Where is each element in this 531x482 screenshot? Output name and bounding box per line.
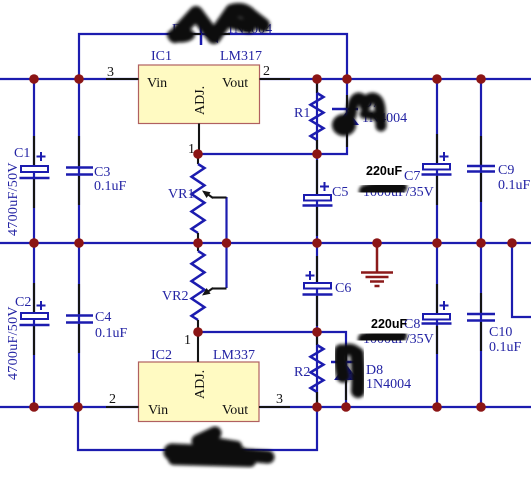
junction mid rail C3 [74, 238, 84, 248]
svg-text:R1: R1 [294, 106, 310, 121]
wire C10 branch [480, 243, 482, 407]
capacitor C7 [363, 134, 452, 205]
svg-text:1N4004: 1N4004 [366, 377, 411, 392]
capacitor C4 0.1uF [66, 284, 128, 353]
svg-text:IC1: IC1 [151, 49, 172, 64]
junction top rail D7 [342, 74, 352, 84]
junction R2 top [312, 327, 322, 337]
junction top rail C7 [432, 74, 442, 84]
svg-text:220uF: 220uF [371, 317, 407, 331]
svg-text:Vin: Vin [147, 76, 167, 91]
svg-text:R2: R2 [294, 365, 310, 380]
annotation 220uF at C7 [366, 164, 402, 178]
wire R1 branch [316, 79, 318, 154]
marker scribble over D5 label [167, 10, 263, 42]
annotation 220uF at C8 [371, 317, 407, 331]
capacitor C9 0.1uF [467, 136, 531, 202]
junction bottom rail D8 [341, 402, 351, 412]
op-amp regulator IC2 LM337 [106, 332, 290, 422]
svg-text:220uF: 220uF [366, 164, 402, 178]
potentiometer VR1 [168, 156, 227, 241]
wire C8 branch [436, 243, 438, 407]
pin number 2 IC2 [109, 392, 116, 407]
junction top rail C9 [476, 74, 486, 84]
capacitor C3 0.1uF [66, 136, 127, 205]
wire bottom bypass loop [78, 407, 317, 450]
wire C1 branch upper [33, 79, 35, 243]
svg-text:4700uF/50V: 4700uF/50V [6, 306, 21, 380]
wire C7 branch [436, 79, 438, 243]
svg-text:3: 3 [107, 65, 114, 80]
wire output stub right [512, 243, 531, 317]
wire top bypass loop [79, 34, 347, 79]
wire middle ground rail [0, 242, 531, 244]
pin number 2 IC1 [263, 64, 270, 79]
svg-text:C3: C3 [94, 165, 110, 180]
svg-text:IC2: IC2 [151, 348, 172, 363]
pin number 3 IC1 [107, 65, 114, 80]
svg-text:0.1uF: 0.1uF [498, 178, 531, 193]
svg-text:C5: C5 [332, 185, 348, 200]
svg-text:ADJ.: ADJ. [193, 370, 208, 399]
svg-text:VR1: VR1 [168, 187, 194, 202]
resistor R2 [294, 334, 324, 405]
capacitor C1 4700uF/50V [6, 136, 50, 236]
svg-text:LM337: LM337 [213, 348, 255, 363]
pin number 1 IC2 ADJ [184, 333, 191, 348]
marker scribble over D8 [341, 350, 359, 392]
capacitor C6 [303, 256, 352, 326]
ground [361, 245, 393, 286]
diode D7 1N4004 [332, 95, 407, 147]
svg-text:0.1uF: 0.1uF [95, 326, 128, 341]
svg-text:C6: C6 [335, 281, 351, 296]
junction top rail C3 [74, 74, 84, 84]
diode D5 1N4004 on top bypass [172, 22, 272, 45]
junction top rail R1 [312, 74, 322, 84]
junction bottom rail R2 [312, 402, 322, 412]
svg-text:D8: D8 [366, 363, 383, 378]
diode D8 1N4004 [331, 348, 411, 400]
svg-text:0.1uF: 0.1uF [489, 340, 522, 355]
junction mid rail output [507, 238, 517, 248]
wire C2 branch lower [33, 243, 35, 407]
junction mid rail C5 [312, 238, 322, 248]
svg-text:Vout: Vout [222, 76, 248, 91]
wire VR wiper vertical lower [225, 243, 227, 288]
wire C3 branch [78, 79, 80, 243]
wire C9 branch [480, 79, 482, 243]
svg-text:ADJ.: ADJ. [193, 86, 208, 115]
svg-text:0.1uF: 0.1uF [94, 179, 127, 194]
junction mid rail VR [193, 238, 203, 248]
wire bottom rail left [0, 406, 138, 408]
junction mid rail C9 [476, 238, 486, 248]
svg-text:VR2: VR2 [162, 289, 188, 304]
wire bottom rail right [260, 406, 531, 408]
junction mid rail ground [372, 238, 382, 248]
wire ADJ node to R1 bottom [198, 79, 347, 154]
junction mid rail C1 [29, 238, 39, 248]
svg-text:C7: C7 [404, 169, 420, 184]
junction mid rail wiper [222, 238, 232, 248]
op-amp regulator IC1 LM317 [106, 49, 290, 154]
junction R1 bottom [312, 149, 322, 159]
svg-text:Vin: Vin [148, 403, 168, 418]
resistor R1 [294, 81, 324, 152]
capacitor C2 4700uF/50V [6, 283, 50, 380]
marker scribble over C7 value [364, 187, 401, 192]
svg-text:4700uF/50V: 4700uF/50V [6, 162, 21, 236]
capacitor C5 [303, 160, 349, 236]
wire top rail right [260, 78, 531, 80]
wire R2 branch [316, 332, 318, 407]
wire top rail left [0, 78, 138, 80]
diode D6 1N4004 on bottom bypass [186, 437, 229, 463]
svg-text:C1: C1 [14, 146, 30, 161]
wire C4 branch [78, 243, 80, 407]
junction top rail C1 [29, 74, 39, 84]
capacitor C8 [363, 284, 452, 354]
potentiometer VR2 [162, 245, 227, 330]
svg-text:LM317: LM317 [220, 49, 262, 64]
svg-text:Vout: Vout [222, 403, 248, 418]
junction ADJ node IC2 [193, 327, 203, 337]
svg-text:C4: C4 [95, 310, 111, 325]
marker scribble over D7 label [332, 98, 381, 136]
junction ADJ node IC1 [193, 149, 203, 159]
pin number 3 IC2 [276, 392, 283, 407]
junction bottom rail C8 [432, 402, 442, 412]
capacitor C10 0.1uF [467, 293, 522, 355]
svg-text:1: 1 [184, 333, 191, 348]
svg-text:2: 2 [263, 64, 270, 79]
wire C5 branch [316, 154, 318, 243]
wire ADJ node 2 to R2 top [198, 332, 346, 407]
marker scribble over D6 [172, 433, 268, 461]
junction mid rail C7 [432, 238, 442, 248]
junction bottom rail C10 [476, 402, 486, 412]
marker scribble over C8 value [363, 335, 401, 339]
svg-text:C10: C10 [489, 325, 512, 340]
svg-text:2: 2 [109, 392, 116, 407]
wire VR wiper vertical upper [225, 197, 227, 243]
junction bottom rail C4 [73, 402, 83, 412]
svg-text:C9: C9 [498, 163, 514, 178]
svg-text:3: 3 [276, 392, 283, 407]
wire C6 branch [316, 243, 318, 332]
junction bottom rail C2 [29, 402, 39, 412]
pin number 1 IC1 ADJ [188, 142, 195, 157]
